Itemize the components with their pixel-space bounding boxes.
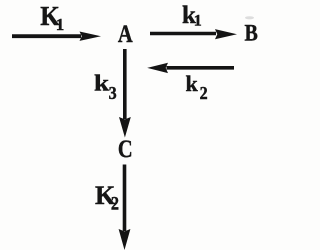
svg-text:B: B [244,20,257,46]
arrow k1 (A to B) [150,29,237,39]
svg-text:k: k [186,71,199,96]
svg-text:1: 1 [56,15,65,34]
label k3 [94,71,117,102]
svg-text:2: 2 [111,193,119,214]
label K2 [95,181,119,214]
arrow k3 (A down to C) [119,49,131,138]
svg-text:A: A [118,20,133,47]
svg-text:C: C [118,135,133,162]
svg-text:3: 3 [109,83,117,103]
svg-text:k: k [94,71,109,96]
svg-text:1: 1 [194,13,202,30]
arrow K1 (feed arrow into A) [12,32,101,41]
arrow k2 (B back to A) [147,63,234,73]
label K1 [40,1,64,33]
arrow K2 (C down, decay) [119,165,131,250]
label k2 [186,71,208,103]
label k1 [182,2,202,30]
smudge artifact above B [245,16,254,19]
svg-text:2: 2 [200,83,208,103]
